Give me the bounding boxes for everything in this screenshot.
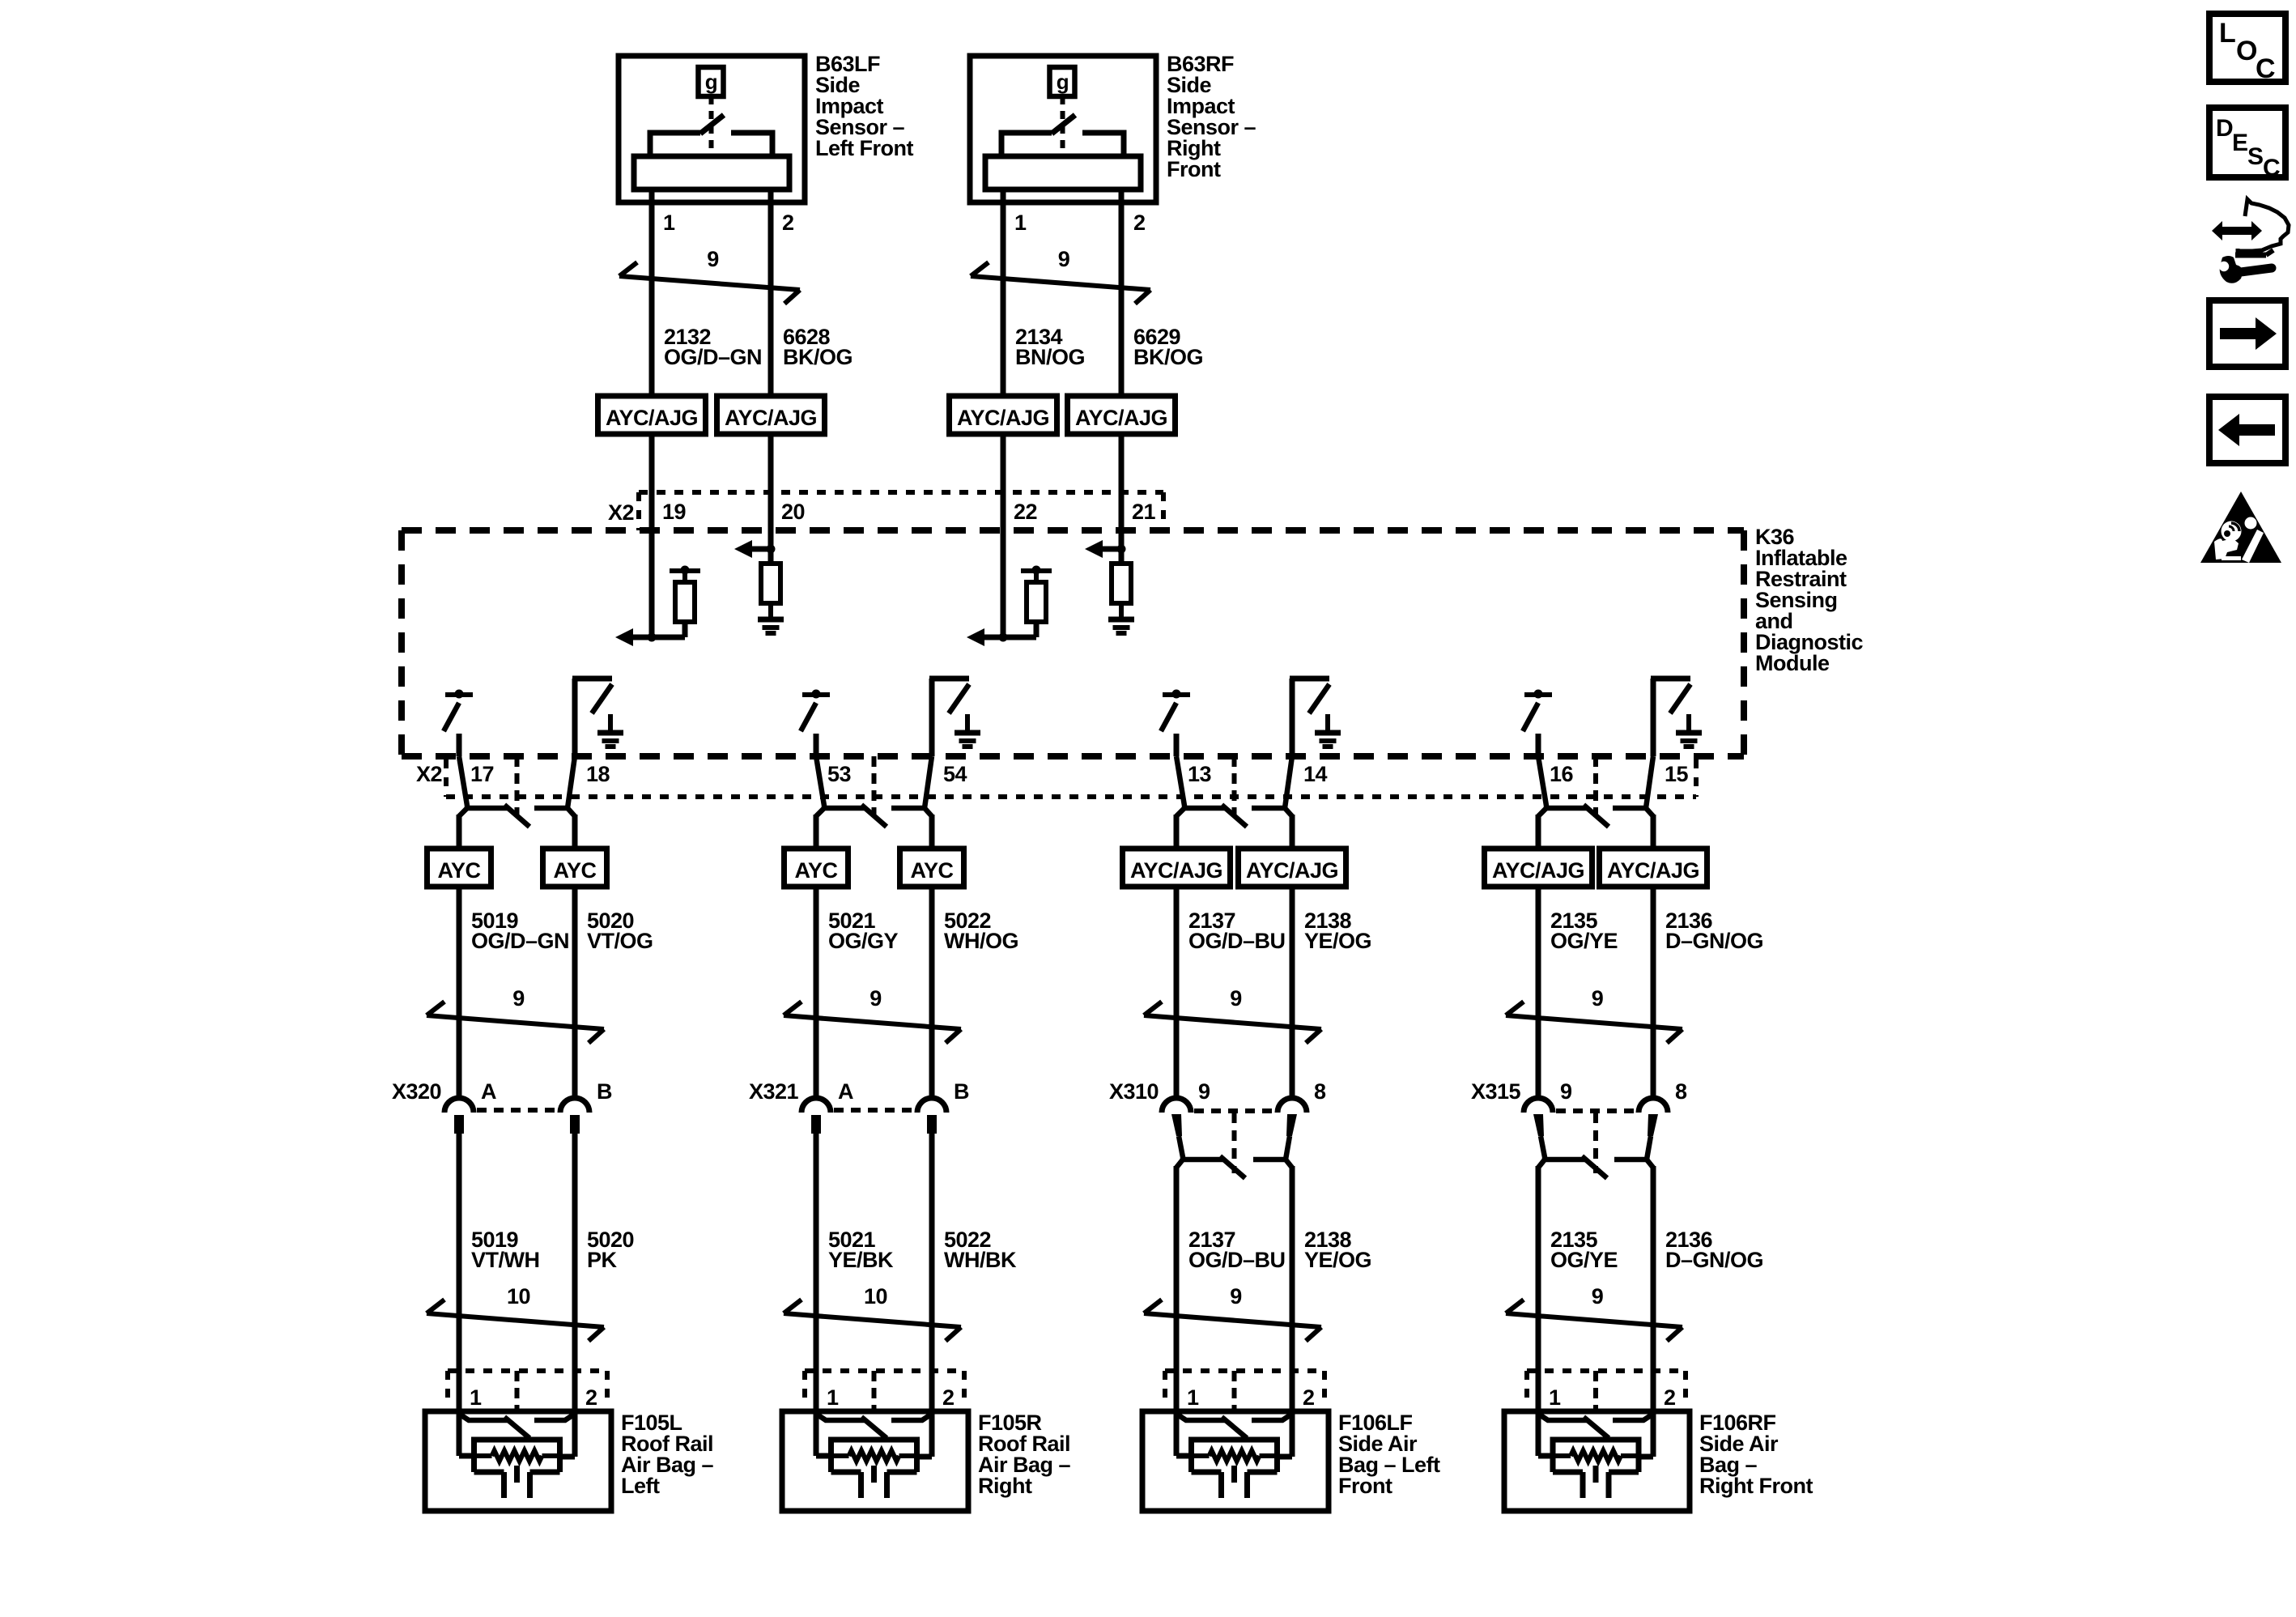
wire 2138 YE/OG	[1290, 1166, 1295, 1412]
svg-text:16: 16	[1550, 762, 1574, 786]
svg-text:YE/BK: YE/BK	[828, 1248, 894, 1272]
svg-text:Left Front: Left Front	[815, 136, 913, 160]
wire X2 to splice box	[572, 815, 578, 849]
F105L shorting bar and leads	[459, 1411, 575, 1457]
svg-text:WH/OG: WH/OG	[944, 929, 1018, 953]
twisted pair marker	[784, 1284, 961, 1341]
harness code box AYC/AJG	[950, 396, 1057, 434]
svg-text:D–GN/OG: D–GN/OG	[1665, 1248, 1763, 1272]
svg-text:9: 9	[707, 247, 719, 271]
icon airbag warning triangle	[2200, 491, 2281, 563]
connector X2 label (top)	[608, 500, 634, 525]
wire 2137 OG/D–BU	[1174, 887, 1180, 1098]
B63LF label	[815, 52, 913, 160]
F105L igniter squib	[474, 1440, 560, 1498]
X321 pin A	[838, 1079, 853, 1104]
X2 pin 22	[1014, 500, 1037, 524]
module ground switch (pin 14)	[1290, 679, 1341, 756]
harness code box AYC	[900, 849, 964, 887]
wire X2 to splice box	[1651, 815, 1656, 849]
X2 pin 15	[1665, 762, 1689, 786]
wire 2134 BN/OG (pin1 B63RF to X2-22)	[1001, 189, 1006, 531]
wire 5019 VT/WH	[457, 1133, 462, 1412]
svg-text:22: 22	[1014, 500, 1037, 524]
svg-text:g: g	[1057, 70, 1069, 94]
svg-text:9: 9	[512, 986, 525, 1011]
svg-text:53: 53	[827, 762, 852, 786]
F106LF pin 1	[1187, 1385, 1199, 1410]
icon diagnostic tool (arrows, connector, wrench)	[2212, 199, 2289, 283]
svg-text:AYC: AYC	[437, 858, 480, 883]
label 5020 VT/OG	[587, 908, 653, 953]
svg-text:2: 2	[1133, 211, 1146, 235]
connector X2 bottom right bracket	[1694, 760, 1699, 797]
svg-text:YE/OG: YE/OG	[1304, 1248, 1371, 1272]
svg-text:9: 9	[1560, 1079, 1572, 1104]
squib connector F105R pins 1-2	[805, 1371, 964, 1423]
X2 pin 20	[781, 500, 805, 524]
svg-text:1: 1	[827, 1385, 839, 1410]
svg-text:OG/GY: OG/GY	[828, 929, 899, 953]
squib connector F106RF pins 1-2	[1527, 1371, 1686, 1423]
icon LOC box	[2209, 14, 2285, 84]
twisted pair marker	[1144, 986, 1321, 1043]
svg-text:B: B	[597, 1079, 612, 1104]
svg-text:A: A	[481, 1079, 496, 1104]
svg-text:AYC/AJG: AYC/AJG	[1492, 858, 1584, 883]
label 2138 YE/OG	[1304, 908, 1371, 953]
F106RF label	[1699, 1411, 1813, 1498]
svg-text:Front: Front	[1338, 1474, 1392, 1498]
harness code box AYC/AJG	[717, 396, 825, 434]
svg-text:OG/D–GN: OG/D–GN	[471, 929, 569, 953]
svg-text:OG/D–GN: OG/D–GN	[664, 345, 762, 369]
X2 pin 14	[1303, 762, 1328, 786]
F106RF pin 1	[1549, 1385, 1561, 1410]
svg-text:2: 2	[585, 1385, 597, 1410]
svg-text:8: 8	[1675, 1079, 1687, 1104]
svg-text:BK/OG: BK/OG	[1133, 345, 1203, 369]
B63RF sensing mass bar	[985, 156, 1141, 189]
svg-text:OG/D–BU: OG/D–BU	[1188, 1248, 1286, 1272]
svg-text:OG/YE: OG/YE	[1550, 929, 1618, 953]
side impact sensor B63RF box	[970, 56, 1156, 202]
svg-text:8: 8	[1314, 1079, 1326, 1104]
svg-text:15: 15	[1665, 762, 1689, 786]
svg-text:AYC/AJG: AYC/AJG	[1246, 858, 1338, 883]
svg-text:1: 1	[663, 211, 675, 235]
svg-text:YE/OG: YE/OG	[1304, 929, 1371, 953]
X310 pin 8	[1314, 1079, 1326, 1104]
module ground switch (pin 18)	[572, 679, 623, 756]
module deploy driver (pin 16) switch	[1523, 690, 1552, 757]
X2 pin 19	[662, 500, 687, 524]
squib connector F106LF pins 1-2	[1165, 1371, 1324, 1423]
F105R igniter squib	[831, 1440, 917, 1498]
svg-text:9: 9	[1198, 1079, 1210, 1104]
air bag module F105L box	[425, 1411, 611, 1511]
svg-text:9: 9	[1058, 247, 1070, 271]
label 5022 WH/BK	[944, 1228, 1017, 1272]
F105R pin 1	[827, 1385, 839, 1410]
connector X310 label	[1109, 1079, 1159, 1104]
F105L label	[621, 1411, 714, 1498]
svg-text:B: B	[954, 1079, 969, 1104]
X2 connector shorting bar	[1538, 756, 1653, 827]
air bag module F106RF box	[1504, 1411, 1690, 1511]
X321 pin B	[954, 1079, 969, 1104]
label 5021 OG/GY	[828, 908, 899, 953]
wire 6628 BK/OG (pin2 B63LF to X2-20)	[768, 189, 774, 531]
inline connector X315	[1524, 1098, 1668, 1178]
svg-text:2: 2	[942, 1385, 955, 1410]
F106LF pin 2	[1303, 1385, 1315, 1410]
twisted pair marker	[784, 986, 961, 1043]
harness code box AYC/AJG	[1068, 396, 1176, 434]
label 2136 D–GN/OG	[1665, 908, 1763, 953]
wire 2135 OG/YE	[1536, 1166, 1541, 1412]
wire 5021 YE/BK	[814, 1133, 819, 1412]
F105L pin 2	[585, 1385, 597, 1410]
label 2137 OG/D–BU	[1188, 908, 1286, 953]
svg-text:D: D	[2216, 115, 2233, 142]
svg-text:C: C	[2256, 53, 2275, 84]
svg-text:10: 10	[864, 1284, 887, 1308]
side impact sensor B63LF box	[619, 56, 805, 202]
svg-text:L: L	[2219, 18, 2235, 49]
label 2136 D–GN/OG	[1665, 1228, 1763, 1272]
svg-text:AYC/AJG: AYC/AJG	[725, 406, 817, 430]
B63LF pin 1	[663, 211, 675, 235]
B63LF internal switch	[700, 96, 724, 155]
X2 pin 18	[586, 762, 610, 786]
X2 connector shorting bar	[459, 756, 575, 827]
wire 5021 OG/GY	[814, 887, 819, 1098]
label 2134 BN/OG	[1015, 325, 1085, 369]
svg-text:S: S	[2247, 143, 2264, 170]
svg-text:AYC/AJG: AYC/AJG	[1075, 406, 1167, 430]
B63RF label	[1167, 52, 1256, 181]
harness code box AYC/AJG	[598, 396, 706, 434]
svg-text:WH/BK: WH/BK	[944, 1248, 1017, 1272]
svg-text:AYC: AYC	[794, 858, 837, 883]
svg-text:g: g	[705, 70, 717, 94]
harness code box AYC	[543, 849, 607, 887]
svg-text:9: 9	[1230, 986, 1242, 1011]
twisted pair marker	[427, 986, 604, 1043]
svg-text:AYC: AYC	[910, 858, 953, 883]
connector X321 label	[749, 1079, 799, 1104]
svg-text:VT/WH: VT/WH	[471, 1248, 540, 1272]
inline connector X321	[801, 1098, 946, 1134]
wire 6629 BK/OG (pin2 B63RF to X2-21)	[1119, 189, 1125, 531]
harness code box AYC/AJG	[1600, 849, 1707, 887]
X320 pin A	[481, 1079, 496, 1104]
X2 pin 21	[1132, 500, 1156, 524]
svg-text:1: 1	[1014, 211, 1027, 235]
svg-text:1: 1	[1187, 1385, 1199, 1410]
icon forward arrow box	[2209, 300, 2285, 367]
wire 5022 WH/OG	[929, 887, 935, 1098]
X315 pin 9	[1560, 1079, 1572, 1104]
svg-text:D–GN/OG: D–GN/OG	[1665, 929, 1763, 953]
svg-text:OG/D–BU: OG/D–BU	[1188, 929, 1286, 953]
X2 pin 54	[943, 762, 967, 786]
label 6628 BK/OG	[783, 325, 852, 369]
F105R pin 2	[942, 1385, 955, 1410]
connector X2 bottom row dotted line	[446, 794, 1696, 799]
svg-text:PK: PK	[587, 1248, 618, 1272]
svg-text:X320: X320	[392, 1079, 441, 1104]
label 5021 YE/BK	[828, 1228, 894, 1272]
F106LF igniter squib	[1192, 1440, 1278, 1498]
svg-text:20: 20	[781, 500, 805, 524]
X320 pin B	[597, 1079, 612, 1104]
X315 pin 8	[1675, 1079, 1687, 1104]
svg-text:18: 18	[586, 762, 610, 786]
B63RF pin 1	[1014, 211, 1027, 235]
X2 connector shorting bar	[816, 756, 932, 827]
svg-text:Left: Left	[621, 1474, 660, 1498]
module deploy driver (pin 17) switch	[444, 690, 473, 757]
wire X2 to splice box (pin 53)	[814, 815, 819, 849]
module internal circuit X2-20 (termination resistor to ground)	[734, 530, 784, 633]
svg-text:X2: X2	[608, 500, 634, 525]
F106LF shorting bar and leads	[1176, 1411, 1292, 1457]
svg-text:O: O	[2236, 36, 2257, 66]
B63RF pin 2	[1133, 211, 1146, 235]
svg-text:2: 2	[782, 211, 794, 235]
wire 2136 D–GN/OG	[1651, 1166, 1656, 1412]
svg-text:2: 2	[1303, 1385, 1315, 1410]
module internal circuit X2-22 (bias resistor and signal arrow)	[967, 530, 1052, 646]
F106RF pin 2	[1664, 1385, 1676, 1410]
B63RF contact brackets	[1001, 133, 1124, 156]
F105R shorting bar and leads	[816, 1411, 932, 1457]
module internal circuit X2-19 (bias resistor and signal arrow)	[615, 530, 700, 646]
svg-text:54: 54	[943, 762, 967, 786]
harness code box AYC	[427, 849, 491, 887]
svg-text:17: 17	[470, 762, 494, 786]
label 2132 OG/D-GN	[664, 325, 762, 369]
wire X2 to splice box (pin 13)	[1174, 815, 1180, 849]
B63LF g-box	[699, 67, 724, 96]
connector X2 label (bottom)	[416, 762, 442, 786]
inline connector X320	[444, 1098, 589, 1134]
B63RF g-box	[1050, 67, 1075, 96]
twisted pair marker	[427, 1284, 604, 1341]
X2 pin 16	[1550, 762, 1574, 786]
svg-text:X315: X315	[1471, 1079, 1521, 1104]
wire 2136 D–GN/OG	[1651, 887, 1656, 1098]
svg-text:AYC/AJG: AYC/AJG	[1130, 858, 1222, 883]
module ground switch (pin 54)	[929, 679, 980, 756]
wire X2 to splice box (pin 16)	[1536, 815, 1541, 849]
label 5022 WH/OG	[944, 908, 1018, 953]
twisted pair marker 9 (B63RF)	[971, 247, 1150, 304]
svg-text:9: 9	[1592, 1284, 1604, 1308]
svg-text:BK/OG: BK/OG	[783, 345, 852, 369]
svg-text:AYC/AJG: AYC/AJG	[1607, 858, 1699, 883]
X2 connector shorting bar	[1176, 756, 1292, 827]
svg-text:19: 19	[662, 500, 687, 524]
svg-text:13: 13	[1188, 762, 1212, 786]
module internal circuit X2-21 (termination resistor to ground)	[1085, 530, 1134, 633]
label 5020 PK	[587, 1228, 634, 1272]
svg-text:AYC: AYC	[553, 858, 596, 883]
svg-text:BN/OG: BN/OG	[1015, 345, 1085, 369]
module ground switch (pin 15)	[1651, 679, 1702, 756]
air bag module F106LF box	[1142, 1411, 1329, 1511]
svg-text:X2: X2	[416, 762, 442, 786]
connector X2 top left bracket	[636, 492, 641, 530]
air bag module F105R box	[782, 1411, 968, 1511]
svg-text:OG/YE: OG/YE	[1550, 1248, 1618, 1272]
svg-text:10: 10	[507, 1284, 530, 1308]
module K36 label	[1755, 525, 1864, 675]
svg-text:21: 21	[1132, 500, 1156, 524]
wire 2137 OG/D–BU	[1174, 1166, 1180, 1412]
svg-text:AYC/AJG: AYC/AJG	[957, 406, 1049, 430]
F106LF label	[1338, 1411, 1440, 1498]
F106RF shorting bar and leads	[1538, 1411, 1653, 1457]
icon back arrow box	[2209, 397, 2285, 463]
module deploy driver (pin 13) switch	[1161, 690, 1190, 757]
X310 pin 9	[1198, 1079, 1210, 1104]
F105L pin 1	[470, 1385, 482, 1410]
harness code box AYC/AJG	[1123, 849, 1231, 887]
module deploy driver (pin 53) switch	[801, 690, 830, 757]
B63RF internal switch	[1052, 96, 1075, 155]
harness code box AYC/AJG	[1239, 849, 1346, 887]
B63LF sensing mass bar	[634, 156, 789, 189]
svg-text:Right: Right	[978, 1474, 1032, 1498]
connector X320 label	[392, 1079, 441, 1104]
twisted pair marker	[1506, 1284, 1682, 1341]
svg-text:1: 1	[470, 1385, 482, 1410]
connector X2 top right bracket	[1161, 492, 1166, 530]
wire 2135 OG/YE	[1536, 887, 1541, 1098]
label 2135 OG/YE	[1550, 1228, 1618, 1272]
twisted pair marker	[1144, 1284, 1321, 1341]
F106RF igniter squib	[1553, 1440, 1639, 1498]
wire 5020 VT/OG	[572, 887, 578, 1098]
wire 5022 WH/BK	[929, 1133, 935, 1412]
connector X2 bottom left bracket	[444, 760, 449, 797]
module K36 Inflatable Restraint Sensing and Diagnostic Module box	[402, 530, 1744, 756]
wire 2132 OG/D-GN (pin1 B63LF to X2-19)	[649, 189, 655, 531]
X2 pin 13	[1188, 762, 1212, 786]
X2 pin 17	[470, 762, 494, 786]
svg-text:AYC/AJG: AYC/AJG	[606, 406, 698, 430]
svg-text:Front: Front	[1167, 157, 1221, 181]
svg-text:Right Front: Right Front	[1699, 1474, 1813, 1498]
label 6629 BK/OG	[1133, 325, 1203, 369]
squib connector F105L pins 1-2	[448, 1371, 607, 1423]
svg-text:E: E	[2232, 130, 2248, 156]
inline connector X310	[1162, 1098, 1307, 1178]
wire X2 to splice box	[1290, 815, 1295, 849]
F105R label	[978, 1411, 1071, 1498]
wire X2 to splice box	[929, 815, 935, 849]
harness code box AYC	[784, 849, 848, 887]
svg-text:VT/OG: VT/OG	[587, 929, 653, 953]
twisted pair marker	[1506, 986, 1682, 1043]
label 5019 OG/D–GN	[471, 908, 569, 953]
svg-text:A: A	[838, 1079, 853, 1104]
connector X2 top row dotted line	[639, 490, 1163, 495]
connector X315 label	[1471, 1079, 1521, 1104]
label 5019 VT/WH	[471, 1228, 540, 1272]
harness code box AYC/AJG	[1485, 849, 1592, 887]
svg-text:Module: Module	[1755, 651, 1830, 675]
label 2135 OG/YE	[1550, 908, 1618, 953]
wire 5020 PK	[572, 1133, 578, 1412]
X2 pin 53	[827, 762, 852, 786]
svg-text:X321: X321	[749, 1079, 799, 1104]
svg-text:C: C	[2263, 155, 2280, 181]
svg-text:1: 1	[1549, 1385, 1561, 1410]
label 2137 OG/D–BU	[1188, 1228, 1286, 1272]
label 2138 YE/OG	[1304, 1228, 1371, 1272]
svg-text:X310: X310	[1109, 1079, 1159, 1104]
svg-text:2: 2	[1664, 1385, 1676, 1410]
icon DESC box	[2209, 108, 2285, 181]
wire 2138 YE/OG	[1290, 887, 1295, 1098]
B63LF pin 2	[782, 211, 794, 235]
twisted pair marker 9 (B63LF)	[619, 247, 800, 304]
wire 5019 OG/D–GN	[457, 887, 462, 1098]
B63LF contact brackets	[650, 133, 772, 156]
svg-text:9: 9	[870, 986, 882, 1011]
svg-text:9: 9	[1592, 986, 1604, 1011]
svg-text:14: 14	[1303, 762, 1328, 786]
wire X2 to splice box (pin 17)	[457, 815, 462, 849]
svg-text:9: 9	[1230, 1284, 1242, 1308]
